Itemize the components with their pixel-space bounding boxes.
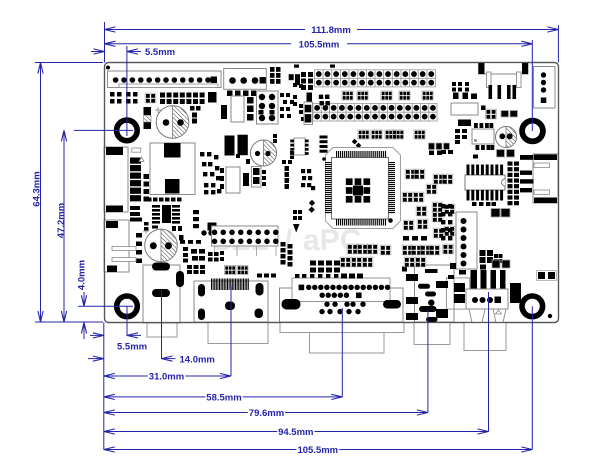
black rect N1 [221,105,227,119]
pads L3 [193,210,199,228]
pads under U4 [472,202,496,206]
dimension 31.0mm [104,372,231,383]
dual pads B15 [492,260,510,268]
IC U3 QFP scaler [322,148,400,229]
pads B14 [480,250,503,270]
svg-text:5.5mm: 5.5mm [145,47,175,58]
pads R8 [455,129,467,144]
svg-text:47.2mm: 47.2mm [56,203,67,238]
connector K1 keypad [212,226,279,246]
passives P2 [289,74,303,88]
pads M7 [290,150,305,159]
IC U6 SOP8 [290,138,308,155]
svg-text:64.3mm: 64.3mm [32,171,43,206]
passive column P1 [270,67,281,84]
audio jack J1 [143,263,184,324]
svg-text:111.8mm: 111.8mm [311,25,351,36]
connector L2 left edge [104,220,136,272]
black rects left of USB [454,283,465,303]
dimension 14.0mm [88,355,215,366]
triangle marker CN2 [257,91,263,96]
triangle marker M1 [139,157,144,162]
HDMI shell below edge [208,323,268,344]
pad row B7 [180,240,201,244]
black bar M3 [243,173,249,186]
squares N3 [247,97,254,121]
mounting hole BL [117,296,138,317]
mounting hole TR [522,121,543,142]
three pads row [429,143,450,150]
IC U4 SOIC16 [465,165,505,201]
passive field right of U3 [402,169,455,238]
extension line DC jack [427,310,429,413]
top edge tick B [330,65,335,68]
pad row under CN1 right [160,93,205,105]
dimension 58.5mm [104,393,342,404]
cluster M9 [301,169,315,190]
passive field above VGA [340,244,453,267]
pads R9 [441,150,453,154]
capacitor C-B [251,140,277,166]
white box M2 [226,167,240,193]
pad strip B8 [441,204,452,240]
pad row B11 [295,274,338,278]
connector R1 right edge [520,154,558,203]
inductor pair R5 [501,111,518,118]
passives under CN1 [110,92,138,104]
L1 pin bars [130,148,149,202]
K1 leader ticks [215,246,277,256]
L1 lower bars [130,206,142,222]
bars under U5 [473,145,494,159]
edge pads M6 [220,168,224,189]
pre-header squares [301,72,313,90]
connector CN1 pin header [108,71,222,88]
HDMI connector J2 [194,279,268,323]
bars M11 [320,136,328,153]
pad row B10 [341,274,363,279]
bars left of C-C [136,233,142,263]
pad grid right of U4 [508,162,520,206]
dual pads L4 [201,223,216,236]
dimension 94.5mm [104,427,489,438]
extension line board left [103,323,105,450]
pads left of CN4 [452,82,477,99]
bars R7 [474,123,493,128]
strip pads M8 [285,166,290,189]
dimension 4.0mm [77,260,134,339]
white box R2 [451,103,478,115]
DC jack J4 [406,265,470,322]
pads M12 [236,154,292,164]
extension line hole BL [126,306,128,336]
svg-text:5.5mm: 5.5mm [117,342,147,353]
corner dot [548,314,552,318]
pads B4 [208,252,219,262]
pads right of C-A [190,106,201,124]
extension line HDMI [230,286,232,376]
VGA shell below edge [280,323,404,354]
black rects left of C-B [225,135,248,156]
svg-text:4.0mm: 4.0mm [77,260,88,290]
capacitor C-C [143,228,177,262]
pads B2 [183,247,188,263]
pad row under U3 [403,236,427,241]
small electrolytic E1 [144,107,152,129]
pad grid B12 [310,261,340,273]
pads B6 [220,251,224,261]
black rect right of USB [510,283,521,303]
dual pads edge B16 [537,271,557,281]
extension line audio [161,290,163,359]
top edge tick A [294,65,299,68]
ladder pads B13 [281,242,293,267]
DC jack shell below edge [414,323,450,345]
pads B9 [402,263,466,279]
USB shell below edge [464,323,506,351]
regulator U2 SOIC [147,198,182,232]
connector K2 6pin [456,212,477,269]
svg-text:14.0mm: 14.0mm [180,355,215,366]
USB connector J5 [466,270,508,323]
dimension 79.6mm [104,408,428,419]
pads under CN2 [227,91,257,97]
white box N2 [231,96,244,122]
triangle mark M14 [293,224,300,233]
crystal Y1 [257,91,279,124]
dual pads TR1 [497,150,515,158]
svg-text:94.5mm: 94.5mm [278,427,313,438]
cap block row 2 [358,130,425,139]
extension line VGA [341,308,343,397]
mounting hole TL [117,120,138,141]
scatter N4 [280,93,330,122]
passive cluster mid [145,93,156,103]
dimension 111.8mm [105,22,559,63]
connector CN3 backlight [479,63,529,100]
scatter right of M1 [200,152,221,194]
connector CN2 [224,69,267,90]
pin header H1 2x14 [315,70,436,87]
dimension 105.5mm top [105,40,533,132]
dimension 47.2mm [56,130,133,322]
black rect R6 [458,120,471,127]
connector L1 left edge [104,147,128,212]
extension line USB [488,292,490,432]
striped blocks B1 [225,266,277,278]
dual pads TR2 [491,209,510,218]
PCB board outline overlay [105,63,559,323]
pads B5 [187,265,205,274]
pin header H2 2x15 [313,104,437,122]
svg-text:79.6mm: 79.6mm [249,408,284,419]
pads B3 [191,249,205,261]
svg-text:105.5mm: 105.5mm [297,445,338,456]
dimension 5.5mm top [91,46,175,136]
extension line hole BR [531,306,533,449]
pads M5 [262,170,266,186]
watermark text [212,224,361,257]
VGA connector J3 [280,278,404,322]
cluster R4 [486,109,497,119]
cap block row 1 [342,91,433,100]
mounting hole BR [522,296,543,317]
dimension 5.5mm bottom [90,333,147,353]
ladder N5 [304,102,313,125]
pads above field [429,151,442,156]
SOIC8 U5 [472,129,494,144]
dimension 64.3mm [32,63,104,323]
diagonal pads M15 [305,200,318,213]
dual-fet M4 [252,167,262,188]
dimension 105.5mm bottom [104,445,533,456]
pads strip M13 [293,210,302,220]
fiducial dot [106,66,110,70]
pads M10 [273,134,277,143]
square pad with hole [208,92,217,103]
pads above C-C [144,222,184,241]
svg-text:58.5mm: 58.5mm [206,393,241,404]
pad R3 [481,106,486,111]
svg-text:31.0mm: 31.0mm [149,372,184,383]
PCB board outline [105,63,559,323]
audio jack shell below edge [147,323,177,338]
svg-text:105.5mm: 105.5mm [299,40,340,51]
connector CN4 power 4pin [534,67,556,109]
capacitor C-A [155,106,189,139]
module M1 DC-DC [150,143,195,195]
diagonal passive [352,139,362,149]
capacitor C-B2 [496,127,517,148]
